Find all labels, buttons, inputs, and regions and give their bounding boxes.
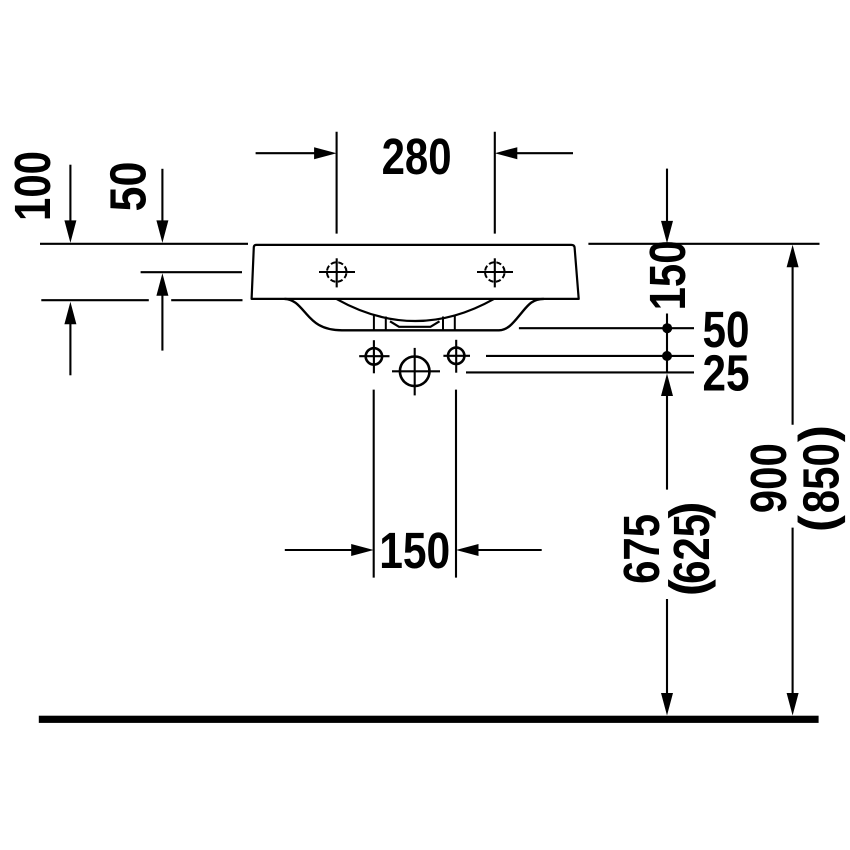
svg-text:): ) — [789, 425, 846, 442]
svg-text:150: 150 — [379, 522, 450, 579]
junction dot lower — [662, 351, 672, 361]
lower reference line (100 level) — [41, 299, 149, 301]
dim 280 witness line right — [494, 132, 496, 234]
outer bowl profile — [285, 299, 544, 330]
wall reference line (top) — [40, 243, 248, 245]
svg-text:(: ( — [789, 515, 846, 532]
dim 675 lower line + arrow — [666, 599, 668, 694]
junction dot upper — [662, 323, 672, 333]
drain detail ticks — [373, 315, 375, 331]
dim 280 left arrow — [256, 152, 315, 154]
dim 150 bottom: extension line right — [455, 390, 457, 578]
dim 150 right: top arrow — [666, 169, 668, 222]
dim 900 lower line + arrow — [792, 528, 794, 694]
dim 100 lower arrow — [69, 323, 71, 375]
leader line 50 — [519, 327, 694, 329]
svg-text:100: 100 — [4, 151, 61, 221]
svg-text:280: 280 — [382, 128, 452, 185]
dim 150/50/25 vertical line — [666, 314, 668, 374]
drain neck outline — [390, 321, 440, 327]
basin deck (slab) — [252, 245, 579, 299]
dim 150 bottom left arrow — [285, 549, 352, 551]
svg-text:(: ( — [659, 579, 716, 596]
svg-text:675: 675 — [613, 514, 670, 584]
floor line — [39, 716, 819, 723]
svg-text:25: 25 — [703, 344, 750, 401]
svg-text:150: 150 — [639, 240, 696, 310]
dim 50 lower arrow — [161, 295, 163, 351]
leader line small holes — [486, 355, 694, 357]
svg-text:50: 50 — [100, 162, 157, 212]
dim 150 bottom right arrow — [478, 549, 542, 551]
wall reference line (top, right segment) — [588, 243, 819, 245]
faucet hole left — [327, 262, 347, 282]
mounting hole right — [448, 348, 464, 364]
svg-text:): ) — [659, 502, 716, 519]
faucet hole right — [485, 262, 505, 282]
leader line big hole — [466, 371, 694, 373]
mounting hole left — [366, 348, 382, 364]
dim 150 bottom: extension line left — [373, 390, 375, 578]
dim 50 upper arrow — [161, 169, 163, 222]
dim 280 right arrow — [517, 152, 573, 154]
svg-text:850: 850 — [793, 443, 850, 513]
inner bowl arc — [336, 299, 494, 321]
dim 100 upper arrow — [69, 165, 71, 222]
dim 900 top arrow — [787, 245, 799, 267]
dim 675 up arrow — [661, 374, 673, 397]
tap/drain hole center — [400, 357, 430, 387]
mid reference line (50 level) — [141, 271, 242, 273]
lower reference line (right part) — [171, 299, 242, 301]
svg-text:625: 625 — [663, 514, 720, 584]
svg-text:900: 900 — [740, 443, 797, 513]
dim 280 witness line left — [336, 132, 338, 234]
